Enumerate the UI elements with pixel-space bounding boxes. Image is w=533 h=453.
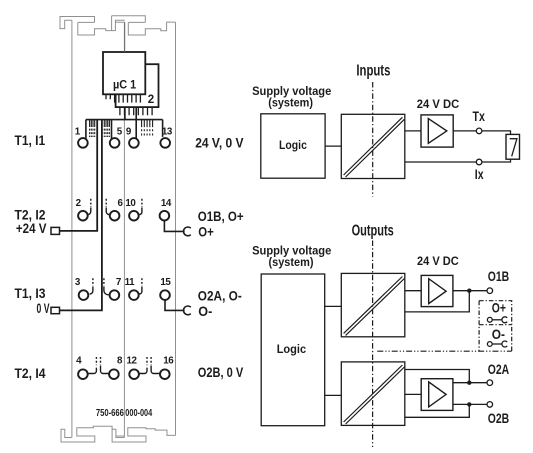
isolator block output ch1 [341, 273, 405, 336]
logic block U3 [261, 274, 325, 426]
junction O2A [467, 381, 471, 385]
wire amplifier to Tx [453, 130, 476, 132]
wire logic to isolator inputs [325, 145, 341, 147]
svg-text:12: 12 [126, 356, 137, 367]
contact spring terminal 16 [150, 357, 152, 365]
svg-text:O+: O+ [492, 301, 506, 316]
terminal 11 [129, 290, 139, 300]
contact spring terminal 3 [92, 278, 94, 286]
wire isolator to O2A top ch2 [405, 370, 470, 383]
amplifier block inputs [421, 115, 453, 147]
svg-text:(system): (system) [268, 95, 313, 109]
housing center wall [123, 22, 125, 438]
terminal O2B [487, 402, 493, 408]
housing left wall [71, 20, 73, 437]
wire logic to isolator ch1 [325, 305, 342, 307]
svg-text:0 V: 0 V [37, 300, 50, 316]
terminal 10 [129, 211, 139, 221]
wire drop to terminal 13 [162, 120, 164, 137]
terminal 7 [110, 290, 120, 300]
switch contact O- [487, 341, 507, 347]
wire terminal 14 to O+ [164, 221, 184, 231]
svg-text:24 V DC: 24 V DC [417, 254, 459, 268]
svg-text:Tx: Tx [473, 108, 486, 124]
switch contact O+ [487, 317, 507, 323]
terminal O2A [487, 380, 493, 386]
connector socket O+ [183, 227, 190, 236]
housing bottom profile [61, 426, 176, 442]
svg-text:Inputs: Inputs [356, 62, 390, 79]
svg-text:+24 V: +24 V [16, 220, 47, 236]
svg-text:O2A, O-: O2A, O- [198, 287, 242, 303]
hatch contacts group B [104, 120, 109, 127]
svg-text:Logic: Logic [277, 342, 306, 356]
svg-text:T1, I3: T1, I3 [15, 285, 46, 301]
svg-text:10: 10 [125, 198, 136, 209]
svg-text:O+: O+ [198, 224, 214, 240]
wire drop to terminal 9 [135, 107, 137, 138]
wire amplifier to O1B [453, 290, 487, 292]
wire isolator to amplifier inputs [405, 130, 421, 132]
svg-text:2: 2 [148, 94, 154, 106]
terminal Tx [476, 128, 482, 134]
terminal 4 [78, 369, 88, 379]
wire drop to terminal 5 [111, 120, 113, 139]
junction ch1 [467, 289, 471, 293]
hatch contacts group C [142, 120, 153, 128]
terminal Ix [476, 159, 482, 165]
contact spring terminal 6 [105, 199, 107, 207]
wire top tab to uC [124, 22, 126, 52]
svg-text:T2, I4: T2, I4 [15, 365, 46, 381]
wire logic to isolator ch2 [325, 394, 342, 396]
wire rail +24V [60, 120, 98, 231]
amplifier block ch2 [421, 379, 453, 411]
svg-text:15: 15 [160, 277, 171, 288]
svg-text:µC 1: µC 1 [113, 79, 137, 91]
amplifier block ch1 [421, 275, 453, 306]
terminal 2 [78, 211, 88, 221]
terminal 6 [110, 211, 120, 221]
wire terminal 4 with contact [88, 368, 96, 374]
svg-text:O2B: O2B [488, 411, 510, 426]
terminal 1 [78, 138, 88, 148]
terminal 15 [160, 290, 170, 300]
svg-text:T1, I1: T1, I1 [15, 132, 46, 148]
option enclosure O+ O- [479, 301, 512, 352]
junction O2B [467, 402, 471, 406]
contact spring terminal 10 [141, 199, 143, 207]
wire return loop ch1 [405, 291, 470, 312]
svg-text:750-666: 750-666 [96, 408, 124, 419]
svg-text:O2A: O2A [488, 362, 510, 377]
svg-text:13: 13 [162, 126, 173, 137]
pins IC2 [120, 107, 152, 115]
svg-text:O-: O- [492, 327, 505, 342]
connector socket O- [183, 306, 190, 315]
contact spring terminal 11 [141, 278, 143, 286]
svg-text:O-: O- [198, 303, 212, 319]
pins U1 [106, 95, 140, 103]
wire terminal 12 with contact [139, 368, 147, 374]
svg-text:O1B: O1B [488, 269, 510, 284]
isolator block output ch2 [341, 362, 405, 426]
svg-text:11: 11 [125, 277, 136, 288]
terminal 13 [160, 138, 170, 148]
wire drop to terminal 1 [85, 120, 87, 139]
logic block U2 [261, 114, 325, 178]
terminal square +24V [51, 227, 60, 234]
hatch contacts group A [90, 120, 95, 127]
wire amplifier to O2B [453, 403, 487, 405]
microcontroller U1 box [103, 52, 145, 94]
wire isolator to amplifier ch2 [405, 393, 421, 395]
terminal square 0V [51, 307, 60, 313]
isolation center line outputs [372, 241, 374, 448]
isolator block inputs [341, 114, 405, 178]
svg-text:000-004: 000-004 [125, 408, 152, 419]
terminal 8 [109, 369, 119, 379]
terminal 3 [79, 290, 89, 300]
housing right wall [175, 22, 177, 435]
terminal 5 [110, 138, 120, 148]
wire Ix to load [482, 159, 511, 162]
isolation center line inputs [372, 82, 374, 197]
terminal 12 [129, 369, 139, 379]
wire rail 0V [60, 120, 102, 311]
svg-text:14: 14 [161, 198, 172, 209]
svg-text:16: 16 [163, 356, 174, 367]
wire pin box2 center [124, 107, 126, 119]
wire terminal 15 to O- [165, 301, 185, 311]
svg-text:Outputs: Outputs [352, 223, 394, 240]
wire Tx to load [482, 131, 511, 135]
contact spring terminal 2 [90, 199, 92, 207]
wire amplifier to O2A [453, 382, 487, 384]
terminal 16 [160, 369, 170, 379]
separator line outputs option [377, 350, 511, 352]
contact spring terminal 8 [100, 357, 102, 365]
terminal 9 [129, 138, 139, 148]
wire isolator to Ix [405, 161, 477, 163]
IC 2 box [116, 64, 159, 107]
svg-text:24 V DC: 24 V DC [417, 97, 459, 111]
svg-text:O1B, O+: O1B, O+ [198, 208, 244, 224]
wire bus row1 [86, 119, 163, 121]
wire return loop ch2 [405, 404, 470, 417]
svg-text:24 V, 0 V: 24 V, 0 V [195, 135, 244, 151]
terminal 14 [160, 211, 170, 221]
wire isolator to amplifier ch1 [405, 290, 421, 292]
housing top profile [60, 16, 176, 35]
terminal O1B [487, 288, 493, 294]
svg-text:O2B, 0 V: O2B, 0 V [198, 364, 244, 380]
load device [506, 134, 520, 159]
svg-text:Logic: Logic [279, 138, 307, 152]
svg-text:(system): (system) [269, 255, 314, 269]
contact spring terminal 7 [103, 278, 105, 286]
svg-text:Ix: Ix [475, 166, 484, 182]
